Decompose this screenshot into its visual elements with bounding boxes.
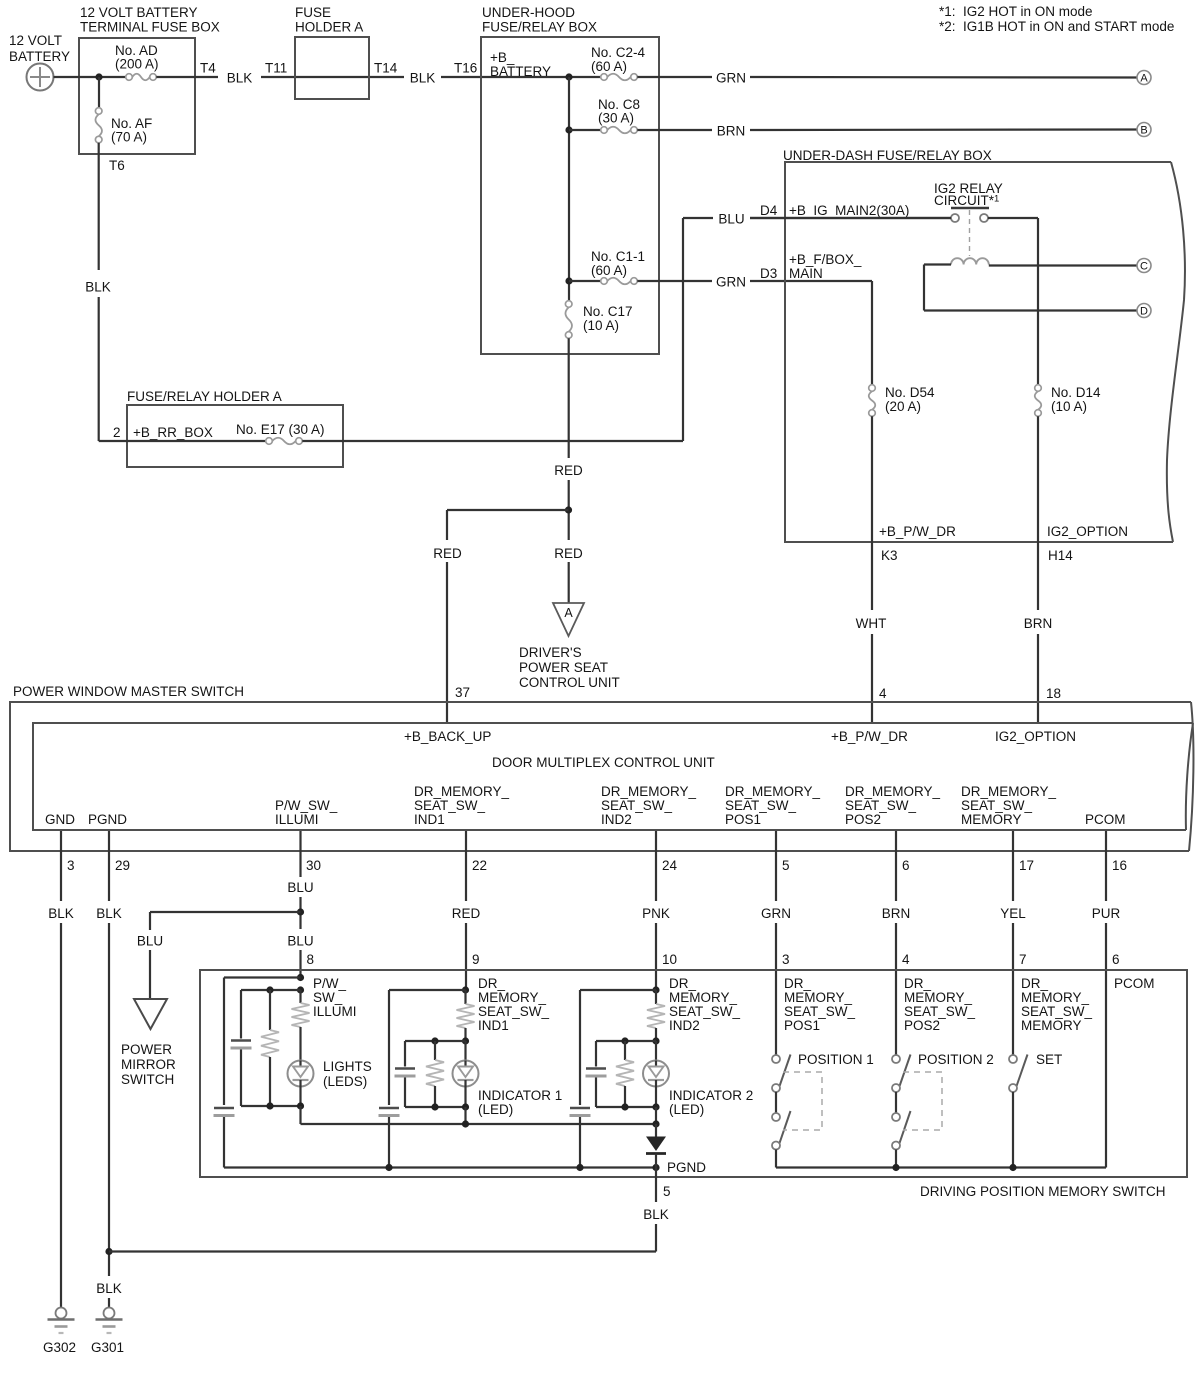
- wire D3 branch down: [871, 281, 873, 385]
- svg-text:TERMINAL FUSE BOX: TERMINAL FUSE BOX: [80, 20, 220, 35]
- wire IND1 RED: [465, 831, 467, 901]
- wire battery to fuse AD: [54, 76, 126, 78]
- wire IND2 PNK: [655, 831, 657, 901]
- under-hood fuse/relay box: [481, 5, 659, 354]
- svg-text:DR_MEMORY_: DR_MEMORY_: [725, 784, 821, 799]
- svg-text:37: 37: [455, 685, 470, 700]
- wire POS2 BRN: [895, 831, 897, 901]
- svg-text:LIGHTS: LIGHTS: [323, 1059, 372, 1074]
- svg-text:UNDER-DASH FUSE/RELAY BOX: UNDER-DASH FUSE/RELAY BOX: [783, 148, 992, 163]
- svg-text:DR_MEMORY_: DR_MEMORY_: [601, 784, 697, 799]
- svg-text:4: 4: [902, 952, 910, 967]
- svg-text:(LEDS): (LEDS): [323, 1074, 367, 1089]
- svg-text:POS1: POS1: [784, 1018, 820, 1033]
- resistor cell3 series: [655, 990, 657, 1004]
- fuse No. C17 (10 A): [565, 301, 632, 339]
- svg-text:BLU: BLU: [287, 880, 313, 895]
- svg-text:RED: RED: [433, 546, 462, 561]
- svg-text:GRN: GRN: [716, 71, 746, 86]
- svg-text:C: C: [1140, 261, 1148, 273]
- svg-text:(10 A): (10 A): [1051, 399, 1087, 414]
- svg-text:POWER SEAT: POWER SEAT: [519, 660, 608, 675]
- wire LED cathode bus: [301, 1123, 657, 1125]
- svg-text:+B_RR_BOX: +B_RR_BOX: [133, 425, 213, 440]
- svg-text:PCOM: PCOM: [1085, 812, 1126, 827]
- connector A driver power seat control unit: [519, 603, 620, 690]
- capacitor cell2 ground: [379, 1107, 399, 1110]
- fuse holder A box: [295, 5, 369, 99]
- svg-text:K3: K3: [881, 548, 898, 563]
- svg-text:*1: IG2 HOT in ON mode: *1: IG2 HOT in ON mode: [939, 4, 1093, 19]
- svg-text:18: 18: [1046, 686, 1061, 701]
- svg-text:29: 29: [115, 858, 130, 873]
- wire down to fuse/relay holder A: [98, 297, 100, 441]
- svg-text:SEAT_SW_: SEAT_SW_: [601, 798, 673, 813]
- node PGND-BLK junction: [105, 1248, 112, 1255]
- fuse No. AF (70 A): [95, 77, 152, 145]
- svg-text:INDICATOR 1: INDICATOR 1: [478, 1088, 562, 1103]
- wire PGND BLK: [108, 831, 110, 901]
- svg-text:RED: RED: [554, 463, 583, 478]
- svg-text:SEAT_SW_: SEAT_SW_: [784, 1004, 856, 1019]
- capacitor cell2 filter: [404, 1041, 406, 1067]
- node LED bus ties: [462, 1120, 469, 1127]
- svg-text:+B_BACK_UP: +B_BACK_UP: [404, 729, 491, 744]
- wire BLU branch to power mirror switch: [150, 911, 301, 913]
- wire BLK bottom bus: [109, 1250, 656, 1252]
- svg-text:DR_MEMORY_: DR_MEMORY_: [961, 784, 1057, 799]
- svg-text:BLU: BLU: [718, 212, 744, 227]
- LED indicator 1: [453, 1041, 563, 1117]
- svg-text:DRIVER'S: DRIVER'S: [519, 645, 582, 660]
- svg-text:MEMORY_: MEMORY_: [784, 990, 853, 1005]
- label DR_MEMORY_SEAT_SW_IND1: [478, 976, 550, 1033]
- svg-text:ILLUMI: ILLUMI: [313, 1004, 357, 1019]
- node cell1 second junction: [297, 986, 304, 993]
- svg-text:IND2: IND2: [601, 812, 632, 827]
- svg-text:SW_: SW_: [313, 990, 343, 1005]
- svg-text:T14: T14: [374, 61, 398, 76]
- LED indicator 2: [643, 1041, 753, 1117]
- svg-text:B: B: [1140, 125, 1147, 137]
- svg-text:12 VOLT: 12 VOLT: [9, 33, 62, 48]
- svg-text:SEAT_SW_: SEAT_SW_: [725, 798, 797, 813]
- svg-text:INDICATOR 2: INDICATOR 2: [669, 1088, 753, 1103]
- ground G302: [43, 1308, 76, 1356]
- node cell2 mid junction: [462, 1037, 469, 1044]
- svg-text:SEAT_SW_: SEAT_SW_: [845, 798, 917, 813]
- svg-text:DRIVING POSITION MEMORY SWITCH: DRIVING POSITION MEMORY SWITCH: [920, 1184, 1166, 1199]
- svg-text:FUSE/RELAY HOLDER A: FUSE/RELAY HOLDER A: [127, 389, 282, 404]
- svg-text:24: 24: [662, 858, 678, 873]
- node RED junction: [565, 506, 572, 513]
- wire cell3 to LED bus: [655, 1107, 657, 1124]
- wire cell1 bottom tie: [241, 1105, 301, 1107]
- fuse No. D14 (10 A): [1035, 385, 1101, 417]
- svg-text:POSITION 2: POSITION 2: [918, 1052, 994, 1067]
- node cell3 bottom ties: [621, 1103, 628, 1110]
- svg-text:FUSE/RELAY BOX: FUSE/RELAY BOX: [482, 20, 597, 35]
- capacitor cell3 ground: [570, 1107, 590, 1110]
- resistor cell3 parallel: [624, 1041, 626, 1060]
- wire IG2_OPTION H14 down: [1037, 416, 1039, 610]
- svg-text:2: 2: [113, 425, 121, 440]
- wire coil to D: [924, 309, 1137, 311]
- svg-text:BLK: BLK: [410, 71, 436, 86]
- label P/W_SW_ILLUMI: [275, 798, 338, 827]
- svg-text:BLK: BLK: [96, 1281, 122, 1296]
- svg-text:MEMORY_: MEMORY_: [669, 990, 738, 1005]
- svg-text:T6: T6: [109, 158, 125, 173]
- svg-text:+B_P/W_DR: +B_P/W_DR: [879, 524, 956, 539]
- svg-text:SEAT_SW_: SEAT_SW_: [1021, 1004, 1093, 1019]
- wire PCOM switch bus: [776, 1166, 1106, 1168]
- svg-text:(LED): (LED): [478, 1102, 513, 1117]
- svg-text:DR_: DR_: [904, 976, 931, 991]
- svg-text:SEAT_SW_: SEAT_SW_: [414, 798, 486, 813]
- svg-text:PGND: PGND: [88, 812, 127, 827]
- svg-text:D3: D3: [760, 266, 777, 281]
- label P/W_SW_ILLUMI: [313, 976, 357, 1019]
- svg-text:DR_: DR_: [478, 976, 505, 991]
- svg-text:7: 7: [1019, 952, 1027, 967]
- switch POSITION 1: [772, 1055, 791, 1168]
- capacitor cell1 ground: [214, 1107, 234, 1110]
- fuse/relay holder A box: [113, 389, 343, 467]
- node C1-1 junction: [565, 277, 572, 284]
- svg-text:30: 30: [306, 858, 321, 873]
- svg-text:+B_IG_MAIN2(30A): +B_IG_MAIN2(30A): [789, 203, 909, 218]
- wire RED branch left: [447, 509, 569, 511]
- node cell1 bottom ties: [266, 1102, 273, 1109]
- svg-text:ILLUMI: ILLUMI: [275, 812, 319, 827]
- svg-text:A: A: [1140, 73, 1148, 85]
- svg-text:IND1: IND1: [478, 1018, 509, 1033]
- svg-text:SEAT_SW_: SEAT_SW_: [669, 1004, 741, 1019]
- svg-text:BLK: BLK: [48, 906, 74, 921]
- svg-text:(70 A): (70 A): [111, 130, 147, 145]
- svg-text:(10 A): (10 A): [583, 318, 619, 333]
- svg-text:MEMORY_: MEMORY_: [1021, 990, 1090, 1005]
- node cap bus ties: [385, 1164, 392, 1171]
- svg-text:22: 22: [472, 858, 487, 873]
- fuse No. D54 (20 A): [869, 385, 935, 417]
- svg-text:DR_MEMORY_: DR_MEMORY_: [414, 784, 510, 799]
- wire MEMORY YEL: [1012, 831, 1014, 901]
- svg-text:MEMORY_: MEMORY_: [478, 990, 547, 1005]
- fuse No. C8 (30 A): [598, 97, 640, 133]
- svg-text:BLK: BLK: [227, 71, 253, 86]
- wire cell2 top rail: [389, 989, 466, 991]
- connector power mirror switch: [121, 999, 176, 1087]
- svg-text:No. C2-4: No. C2-4: [591, 45, 646, 60]
- capacitor cell1 filter: [240, 990, 242, 1039]
- svg-text:P/W_: P/W_: [313, 976, 346, 991]
- node BLU junction: [297, 908, 304, 915]
- svg-text:No. C1-1: No. C1-1: [591, 249, 645, 264]
- svg-text:8: 8: [307, 952, 315, 967]
- wire +B RR BOX to BLU riser: [302, 440, 683, 442]
- svg-text:DOOR MULTIPLEX CONTROL UNIT: DOOR MULTIPLEX CONTROL UNIT: [492, 755, 715, 770]
- label DR_MEMORY_SEAT_SW_POS1: [784, 976, 856, 1033]
- svg-text:BLU: BLU: [287, 934, 313, 949]
- svg-text:P/W_SW_: P/W_SW_: [275, 798, 338, 813]
- svg-text:MIRROR: MIRROR: [121, 1057, 176, 1072]
- svg-text:SEAT_SW_: SEAT_SW_: [961, 798, 1033, 813]
- svg-text:RED: RED: [554, 546, 583, 561]
- svg-text:4: 4: [879, 686, 887, 701]
- svg-text:UNDER-HOOD: UNDER-HOOD: [482, 5, 575, 20]
- dashed linkage POSITION 1: [783, 1072, 822, 1130]
- wire cell3 left rail: [579, 990, 581, 1105]
- svg-text:WHT: WHT: [856, 616, 887, 631]
- svg-text:MEMORY: MEMORY: [1021, 1018, 1082, 1033]
- svg-text:IND1: IND1: [414, 812, 445, 827]
- svg-text:BLK: BLK: [85, 280, 111, 295]
- 12 volt battery terminal fuse box: [79, 5, 220, 154]
- driving position memory switch box: [200, 970, 1187, 1199]
- svg-text:No. E17 (30 A): No. E17 (30 A): [236, 422, 325, 437]
- node cell2 bottom ties: [431, 1103, 438, 1110]
- svg-text:IND2: IND2: [669, 1018, 700, 1033]
- power window master switch box: [10, 684, 1193, 851]
- svg-text:POWER: POWER: [121, 1042, 172, 1057]
- svg-text:CONTROL UNIT: CONTROL UNIT: [519, 675, 620, 690]
- svg-text:BRN: BRN: [717, 124, 746, 139]
- wire cell2 mid rail: [405, 1040, 466, 1042]
- wire P/W_SW_ILLUMI BLU: [299, 831, 301, 877]
- wire capacitor ground bus: [224, 1166, 656, 1168]
- wire cell1 to LED bus: [299, 1106, 301, 1124]
- wire into holder pin 2: [99, 440, 266, 442]
- svg-text:T16: T16: [454, 61, 477, 76]
- svg-text:MAIN: MAIN: [789, 266, 823, 281]
- svg-text:No. D54: No. D54: [885, 385, 935, 400]
- capacitor cell3 filter: [595, 1041, 597, 1067]
- label DR_MEMORY_SEAT_SW_IND2: [601, 784, 697, 827]
- svg-text:9: 9: [472, 952, 480, 967]
- svg-text:BLU: BLU: [137, 934, 163, 949]
- wire cell3 mid rail: [596, 1040, 656, 1042]
- svg-text:IG2_OPTION: IG2_OPTION: [995, 729, 1076, 744]
- svg-text:10: 10: [662, 952, 677, 967]
- relay actuator dashed link: [969, 210, 971, 256]
- under-dash fuse/relay box: [783, 148, 1185, 542]
- node pin8 junction: [297, 974, 304, 981]
- svg-text:6: 6: [1112, 952, 1120, 967]
- node cell3 resistor tap: [621, 1037, 628, 1044]
- svg-text:D: D: [1140, 306, 1148, 318]
- wire BRN to B: [637, 129, 712, 131]
- svg-text:YEL: YEL: [1000, 906, 1026, 921]
- svg-text:G302: G302: [43, 1340, 76, 1355]
- resistor cell1 parallel: [269, 990, 271, 1030]
- svg-text:(LED): (LED): [669, 1102, 704, 1117]
- svg-text:(60 A): (60 A): [591, 263, 627, 278]
- svg-text:MEMORY: MEMORY: [961, 812, 1022, 827]
- label DR_MEMORY_SEAT_SW_POS2: [904, 976, 976, 1033]
- svg-text:12 VOLT BATTERY: 12 VOLT BATTERY: [80, 5, 198, 20]
- LED lights cell1: [288, 1059, 372, 1089]
- resistor cell2 series: [464, 990, 466, 1004]
- wire cell2 left rail: [388, 990, 390, 1105]
- label D4 +B_IG_MAIN2: [760, 203, 909, 218]
- wire cell1 top rail: [224, 976, 301, 978]
- svg-text:(200 A): (200 A): [115, 57, 159, 72]
- fuse No. C2-4 (60 A): [591, 45, 646, 80]
- ground G301: [91, 1308, 124, 1356]
- wire RED down from C17: [568, 338, 570, 458]
- node pin9 junction: [462, 986, 469, 993]
- wire fuse AD to T4: [156, 76, 218, 78]
- svg-text:POS2: POS2: [845, 812, 881, 827]
- diode PGND: [646, 1124, 666, 1177]
- terminal A: [1137, 71, 1151, 85]
- svg-text:A: A: [564, 606, 573, 620]
- wire to pin 37: [446, 562, 448, 723]
- wire T6 down BLK: [98, 143, 100, 270]
- label DR_MEMORY_SEAT_SW_MEMORY: [961, 784, 1057, 827]
- label DR_MEMORY_SEAT_SW_MEMORY: [1021, 976, 1093, 1033]
- wire cell3 bottom tie: [596, 1106, 656, 1108]
- terminal B: [1137, 123, 1151, 137]
- svg-text:No. D14: No. D14: [1051, 385, 1101, 400]
- svg-text:PUR: PUR: [1092, 906, 1121, 921]
- node +B battery bus junction: [565, 73, 572, 80]
- wire to fuse C1-1: [569, 280, 601, 282]
- 12 volt battery: [9, 33, 70, 91]
- svg-text:GRN: GRN: [761, 906, 791, 921]
- fuse No. E17 (30 A): [266, 438, 273, 445]
- svg-text:+B_P/W_DR: +B_P/W_DR: [831, 729, 908, 744]
- door multiplex control unit box: [33, 723, 1193, 830]
- svg-text:SEAT_SW_: SEAT_SW_: [904, 1004, 976, 1019]
- svg-text:FUSE: FUSE: [295, 5, 331, 20]
- svg-text:DR_: DR_: [784, 976, 811, 991]
- node cell1 resistor tap: [266, 986, 273, 993]
- node pin10 junction: [652, 986, 659, 993]
- svg-text:H14: H14: [1048, 548, 1073, 563]
- wire BLU riser: [682, 218, 684, 441]
- svg-text:SWITCH: SWITCH: [121, 1072, 174, 1087]
- wire GND BLK: [60, 831, 62, 901]
- wire cell1 left rail: [223, 978, 225, 1106]
- relay contact terminals: [951, 214, 988, 222]
- wire cell2 to LED bus: [464, 1107, 466, 1124]
- svg-text:DR_MEMORY_: DR_MEMORY_: [845, 784, 941, 799]
- svg-text:D4: D4: [760, 203, 778, 218]
- svg-text:POSITION 1: POSITION 1: [798, 1052, 874, 1067]
- relay coil: [951, 258, 989, 264]
- svg-text:BLK: BLK: [96, 906, 122, 921]
- svg-text:T11: T11: [265, 61, 287, 76]
- terminal D: [1137, 304, 1151, 318]
- label DR_MEMORY_SEAT_SW_POS2: [845, 784, 941, 827]
- svg-text:DR_: DR_: [1021, 976, 1048, 991]
- svg-text:SEAT_SW_: SEAT_SW_: [478, 1004, 550, 1019]
- dashed linkage POSITION 2: [903, 1072, 942, 1130]
- wire relay output down: [988, 217, 1038, 219]
- svg-text:BATTERY: BATTERY: [490, 64, 551, 79]
- wire cell2 bottom tie: [405, 1106, 466, 1108]
- svg-text:BLK: BLK: [643, 1207, 669, 1222]
- svg-text:T4: T4: [200, 61, 216, 76]
- node C8 junction: [565, 126, 572, 133]
- wire T16 segment into under-hood box: [441, 76, 601, 78]
- node cell2 resistor tap: [431, 1037, 438, 1044]
- svg-text:+B_F/BOX_: +B_F/BOX_: [789, 252, 862, 267]
- svg-text:MEMORY_: MEMORY_: [904, 990, 973, 1005]
- svg-text:SET: SET: [1036, 1052, 1062, 1067]
- wire GRN to under-dash D3: [637, 280, 712, 282]
- svg-text:5: 5: [663, 1184, 671, 1199]
- svg-text:(60 A): (60 A): [591, 59, 627, 74]
- svg-text:POS1: POS1: [725, 812, 761, 827]
- node switch bus ties: [892, 1164, 899, 1171]
- svg-text:G301: G301: [91, 1340, 124, 1355]
- svg-text:BRN: BRN: [1024, 616, 1053, 631]
- svg-text:6: 6: [902, 858, 910, 873]
- wire to fuse C8: [569, 129, 601, 131]
- wire pin5 BLK down: [655, 1177, 657, 1202]
- switch POSITION 2: [892, 1055, 911, 1168]
- label DR_MEMORY_SEAT_SW_IND1: [414, 784, 510, 827]
- label DR_MEMORY_SEAT_SW_IND2: [669, 976, 741, 1033]
- wire cell1 second rail: [241, 989, 301, 991]
- svg-text:3: 3: [67, 858, 75, 873]
- relay contact bar: [951, 207, 989, 210]
- svg-text:17: 17: [1019, 858, 1034, 873]
- wire GRN to A: [637, 76, 712, 78]
- svg-text:(20 A): (20 A): [885, 399, 921, 414]
- svg-text:BRN: BRN: [882, 906, 911, 921]
- svg-text:RED: RED: [452, 906, 481, 921]
- svg-text:CIRCUIT*1: CIRCUIT*1: [934, 193, 999, 208]
- switch SET: [1009, 1055, 1028, 1168]
- svg-text:(30 A): (30 A): [598, 111, 634, 126]
- fuse No. C1-1 (60 A): [591, 249, 645, 284]
- svg-text:POWER WINDOW MASTER SWITCH: POWER WINDOW MASTER SWITCH: [13, 684, 244, 699]
- svg-text:POS2: POS2: [904, 1018, 940, 1033]
- svg-text:PCOM: PCOM: [1114, 976, 1155, 991]
- svg-text:DR_: DR_: [669, 976, 696, 991]
- wire T11 segment: [261, 76, 404, 78]
- svg-text:*2: IG1B HOT in ON and START: *2: IG1B HOT in ON and START mode: [939, 19, 1174, 34]
- IG2 relay circuit: [934, 181, 1003, 208]
- wire bus vertical: [568, 77, 570, 301]
- wire POS1 GRN: [775, 831, 777, 901]
- svg-text:HOLDER A: HOLDER A: [295, 20, 363, 35]
- terminal C: [1137, 259, 1151, 273]
- svg-text:IG2_OPTION: IG2_OPTION: [1047, 524, 1128, 539]
- label DR_MEMORY_SEAT_SW_POS1: [725, 784, 821, 827]
- note IG2 hot modes: [939, 4, 1174, 34]
- wire coil left: [924, 263, 951, 265]
- svg-text:BATTERY: BATTERY: [9, 49, 70, 64]
- wire PCOM PUR: [1105, 831, 1107, 901]
- wire D4 into box: [750, 217, 951, 219]
- wire +B_P/W_DR K3 down: [871, 416, 873, 610]
- wire cell3 top rail: [580, 989, 656, 991]
- resistor cell2 parallel: [434, 1041, 436, 1060]
- svg-text:GND: GND: [45, 812, 75, 827]
- svg-text:PGND: PGND: [667, 1160, 706, 1175]
- svg-text:3: 3: [782, 952, 790, 967]
- svg-text:16: 16: [1112, 858, 1127, 873]
- resistor cell1 series: [299, 990, 301, 1003]
- node cell3 mid junction: [652, 1037, 659, 1044]
- node junction at fuse box: [95, 73, 102, 80]
